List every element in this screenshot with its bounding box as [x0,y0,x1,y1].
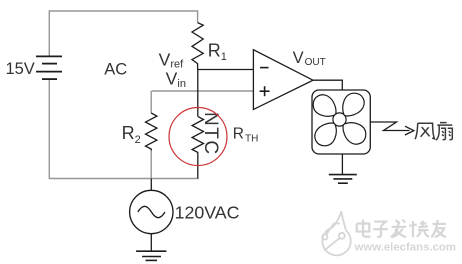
battery 15V [36,56,62,79]
扇 [440,122,447,124]
烧 [412,221,414,237]
svg-text:TH: TH [245,133,258,144]
风 [415,123,418,139]
发 [392,226,407,228]
label fan (Chinese 风扇) drawn as strokes [415,123,452,141]
resistor R1 [192,23,203,70]
wire Vref node down to thermistor [197,70,199,117]
fan blades [313,93,366,146]
watermark logo (elecfans ball) [322,211,351,255]
svg-text:120VAC: 120VAC [175,203,240,223]
svg-text:AC: AC [104,61,127,79]
svg-text:1: 1 [221,51,227,63]
svg-text:NTC: NTC [200,112,221,156]
watermark text 电子发烧友 drawn as strokes [357,220,446,238]
arrow head [405,126,414,135]
友 [432,223,446,225]
wire AC source to ground [150,234,152,251]
wire R2 top stub [150,91,152,113]
fan ground [341,154,343,174]
wire top rail from battery to R1 [49,11,197,56]
wire inverting input (Vref node to op-amp) [198,69,254,71]
resistor R2 [146,113,157,151]
svg-text:www.elecfans.com: www.elecfans.com [354,241,457,253]
svg-text:15V: 15V [5,60,34,78]
wire R2 bottom stub [150,151,152,179]
op-amp minus sign [260,67,269,69]
ground (AC source) [136,251,166,260]
thermistor RTH zigzag [192,116,203,156]
svg-text:R: R [233,125,244,142]
svg-text:2: 2 [135,134,141,146]
wire op-amp output to fan [313,80,342,90]
wire thermistor bottom to rail [197,156,199,179]
wire left vertical and bottom rail [49,79,198,178]
svg-text:in: in [177,78,186,90]
wire rail to AC source [150,179,152,191]
svg-text:V: V [293,49,304,67]
svg-text:R: R [122,123,135,143]
red circle around NTC [169,108,227,166]
svg-text:V: V [166,69,178,89]
fan hub [333,113,346,126]
电 [363,220,370,237]
fan body [312,90,370,154]
AC source 120VAC circle [130,190,173,233]
svg-text:OUT: OUT [305,57,326,68]
svg-text:V: V [159,49,171,69]
wire non-inverting input (Vin) [152,90,254,92]
sine wave [138,206,165,217]
wire fan to arrow [370,122,409,131]
op-amp U1 [253,50,313,110]
svg-text:R: R [208,40,221,60]
子 [374,222,386,226]
op-amp plus sign [260,90,270,92]
